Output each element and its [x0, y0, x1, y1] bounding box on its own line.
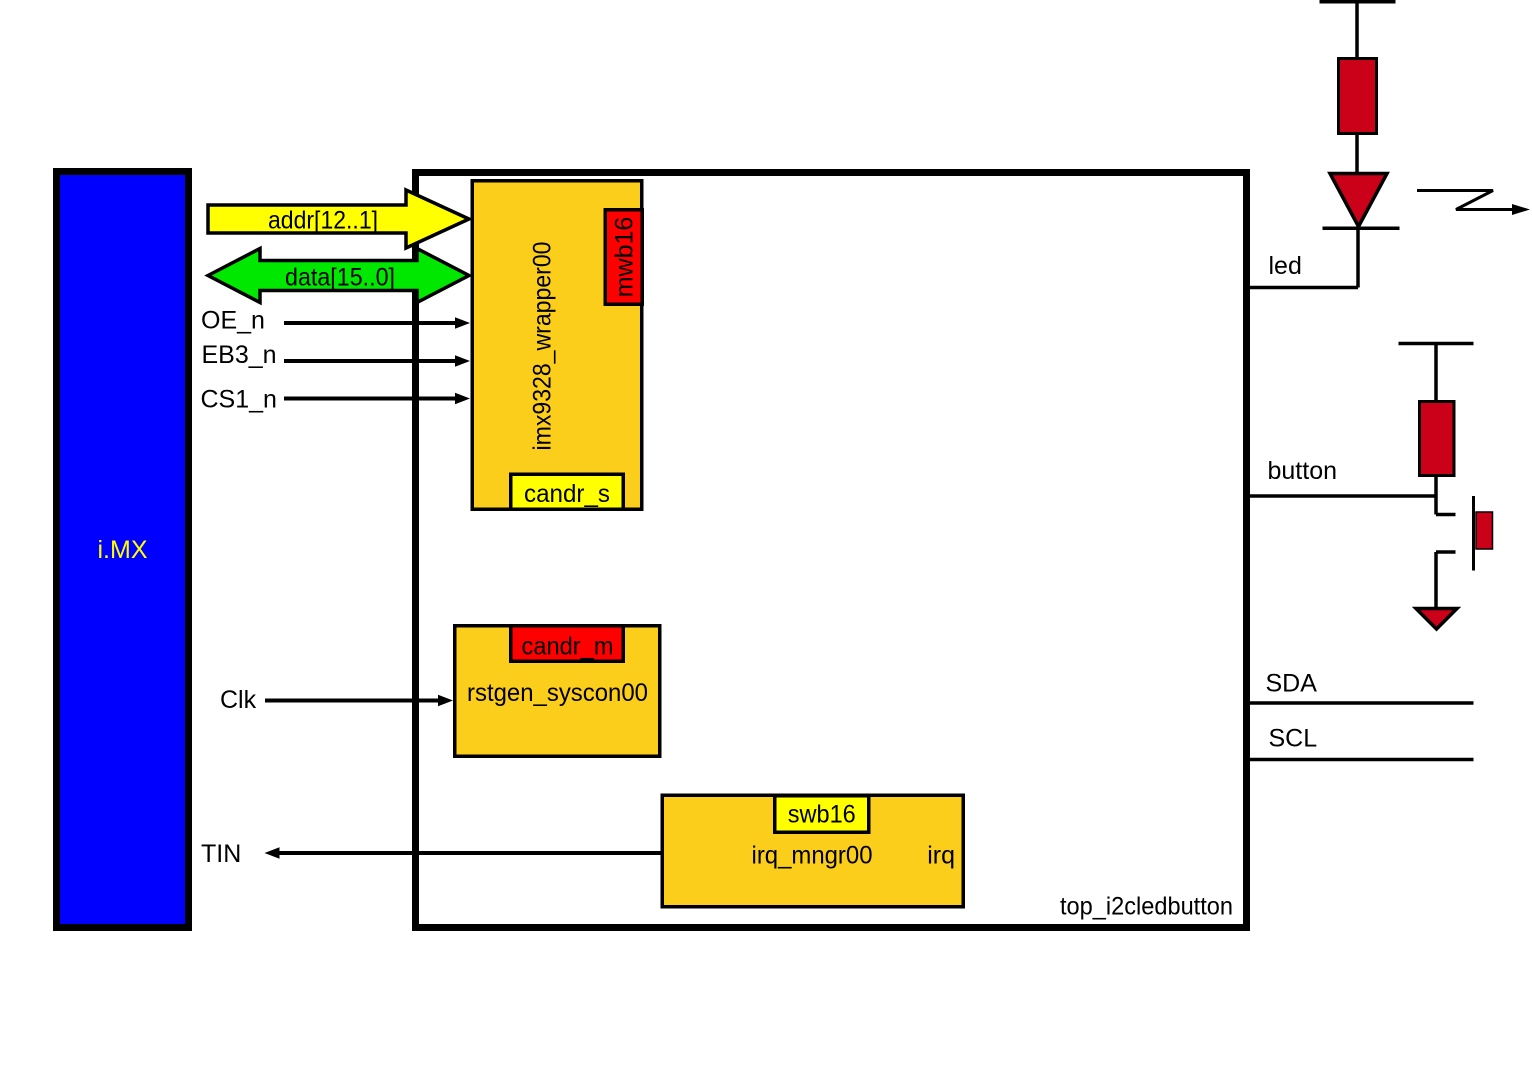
bus arrow data[15..0] [208, 249, 469, 303]
wire resistor to switch [1434, 476, 1438, 515]
ground [1416, 609, 1457, 630]
wire SDA [1247, 701, 1474, 705]
svg-text:swb16: swb16 [788, 801, 856, 829]
led D1 triangle [1330, 174, 1387, 227]
wire button net [1247, 494, 1437, 498]
wire SCL [1247, 758, 1474, 762]
svg-text:SCL: SCL [1269, 725, 1318, 753]
led cathode bar [1323, 227, 1400, 231]
bus arrow addr[12..1] [208, 190, 469, 248]
switch upper contact [1436, 513, 1456, 517]
block rstgen_syscon00 [455, 626, 660, 757]
switch cap [1476, 512, 1493, 549]
svg-text:EB3_n: EB3_n [202, 341, 277, 369]
light arrow [1417, 191, 1514, 210]
wire led net [1247, 286, 1359, 290]
port candr_s [511, 474, 624, 509]
block imx9328_wrapper00 [472, 181, 642, 510]
svg-text:button: button [1268, 457, 1338, 485]
svg-text:candr_s: candr_s [524, 480, 610, 508]
svg-text:SDA: SDA [1266, 670, 1318, 698]
wire CS1_n [284, 397, 457, 401]
svg-text:candr_m: candr_m [522, 632, 614, 660]
svg-text:irq: irq [927, 841, 955, 869]
svg-text:top_i2cledbutton: top_i2cledbutton [1060, 893, 1233, 921]
wire resistor to led [1355, 134, 1359, 175]
resistor R1 [1339, 59, 1377, 134]
wire Clk [265, 699, 440, 703]
svg-text:TIN: TIN [201, 840, 241, 868]
svg-text:i.MX: i.MX [98, 536, 148, 564]
resistor R2 [1420, 402, 1455, 476]
vcc bar button [1399, 342, 1474, 346]
wire vcc to resistor R2 [1434, 344, 1438, 402]
svg-text:addr[12..1]: addr[12..1] [268, 207, 378, 235]
switch actuator bar [1472, 496, 1475, 571]
block i.MX [57, 172, 189, 928]
port swb16 [775, 796, 869, 833]
wire TIN [277, 851, 661, 855]
svg-text:rstgen_syscon00: rstgen_syscon00 [467, 679, 648, 707]
svg-text:data[15..0]: data[15..0] [285, 264, 395, 292]
wire switch to ground [1434, 552, 1438, 608]
svg-text:CS1_n: CS1_n [201, 385, 277, 413]
block top_i2cledbutton [416, 173, 1247, 928]
wire led down [1356, 228, 1360, 287]
block irq_mngr00 [662, 795, 963, 907]
vcc bar led [1320, 0, 1396, 4]
wire vcc to resistor R1 [1355, 2, 1359, 58]
wire OE_n [284, 321, 457, 325]
wire EB3_n [284, 359, 457, 363]
svg-text:imx9328_wrapper00: imx9328_wrapper00 [529, 242, 557, 451]
svg-text:irq_mngr00: irq_mngr00 [752, 841, 873, 869]
svg-text:mwb16: mwb16 [611, 217, 639, 298]
switch lower contact [1436, 550, 1456, 554]
svg-text:OE_n: OE_n [201, 306, 265, 334]
port mwb16 [605, 210, 642, 305]
svg-text:led: led [1269, 252, 1302, 280]
svg-text:Clk: Clk [220, 686, 257, 714]
port candr_m [511, 626, 624, 662]
